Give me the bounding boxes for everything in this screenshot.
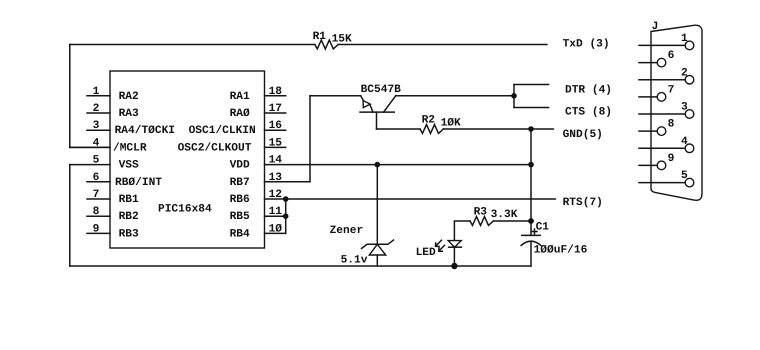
svg-text:RB6: RB6: [230, 194, 250, 206]
svg-text:17: 17: [269, 103, 282, 115]
svg-text:2: 2: [93, 103, 100, 115]
pin 5 wire: [70, 164, 110, 166]
pin 17 wire: [265, 112, 286, 114]
J pin 4 wire: [639, 147, 685, 149]
svg-text:Zener: Zener: [330, 225, 364, 237]
svg-text:2: 2: [681, 67, 688, 79]
J pin 6 circle: [657, 58, 666, 67]
svg-text:PIC16x84: PIC16x84: [158, 204, 212, 216]
svg-text:RA1: RA1: [230, 91, 250, 103]
wire pin13 riser: [309, 96, 311, 182]
wire top TxD line right of R1: [338, 44, 547, 46]
svg-text:3.3K: 3.3K: [491, 209, 518, 221]
wire R2 to GND node: [443, 128, 531, 130]
svg-text:16: 16: [269, 120, 283, 132]
svg-text:R1: R1: [313, 31, 327, 43]
J pin 8 wire: [639, 130, 657, 132]
svg-text:RB5: RB5: [230, 211, 250, 223]
svg-text:4: 4: [681, 136, 688, 148]
svg-text:3: 3: [93, 120, 100, 132]
svg-text:9: 9: [668, 153, 675, 165]
svg-text:RB1: RB1: [119, 194, 139, 206]
J pin 5 wire: [639, 182, 685, 184]
LED D2 triangle: [448, 241, 461, 248]
capacitor C1 top plate: [522, 234, 541, 236]
pin 15 wire: [265, 146, 286, 148]
wire base to R2: [377, 128, 421, 130]
resistor R2: [420, 125, 443, 134]
svg-text:CTS (8): CTS (8): [565, 105, 612, 118]
svg-text:18: 18: [269, 86, 283, 98]
svg-text:/MCLR: /MCLR: [113, 141, 147, 154]
transistor Q1 BC547B emitter diagonal: [361, 96, 373, 112]
J pin 8 circle: [657, 127, 666, 136]
pin 10 wire: [265, 232, 286, 234]
pin 18 wire: [265, 95, 286, 97]
wire CTS stub: [514, 107, 549, 109]
svg-text:VSS: VSS: [119, 160, 139, 172]
J pin 9 circle: [657, 161, 666, 170]
svg-text:6: 6: [93, 172, 100, 184]
LED arrow 1: [436, 240, 442, 246]
svg-text:5.1v: 5.1v: [341, 255, 368, 267]
svg-text:11: 11: [269, 206, 283, 218]
svg-text:OSC2/CLKOUT: OSC2/CLKOUT: [178, 141, 252, 154]
wire R3 to C1 branch: [493, 220, 531, 222]
svg-text:7: 7: [668, 85, 675, 97]
pin 1 wire: [87, 95, 110, 97]
transistor Q1 collector diagonal: [384, 96, 396, 112]
connector J DB9 outline: [651, 25, 702, 200]
svg-text:RA4/TØCKI: RA4/TØCKI: [115, 124, 175, 137]
svg-text:1: 1: [93, 86, 100, 98]
wire bottom rail: [70, 265, 531, 267]
C1 plus sign: [532, 229, 537, 234]
svg-text:1Ø: 1Ø: [269, 223, 283, 235]
junction R2/GND/C1: [528, 126, 534, 132]
wire LED branch top corner to R3: [454, 221, 470, 241]
svg-text:C1: C1: [536, 222, 550, 234]
IC U1 PIC16x84 body: [110, 71, 265, 248]
J pin 1 wire: [639, 44, 685, 46]
svg-text:RB7: RB7: [230, 177, 250, 189]
svg-text:7: 7: [93, 189, 100, 201]
svg-text:14: 14: [269, 155, 283, 167]
svg-text:RB3: RB3: [119, 228, 139, 240]
pin 3 wire: [87, 129, 110, 131]
svg-text:R2: R2: [422, 115, 436, 127]
pin 2 wire: [87, 112, 110, 114]
svg-text:6: 6: [668, 50, 675, 62]
svg-text:RBØ/INT: RBØ/INT: [115, 176, 162, 189]
pin 12 wire RTS line: [286, 198, 556, 200]
J pin 7 circle: [657, 93, 666, 102]
svg-text:5: 5: [681, 170, 688, 182]
svg-text:8: 8: [93, 206, 100, 218]
wire top TxD line left of R1: [70, 44, 315, 46]
J pin 1 circle: [685, 41, 694, 50]
svg-text:BC547B: BC547B: [361, 84, 402, 96]
pin 13 wire: [265, 181, 311, 183]
pin 4 wire: [70, 146, 110, 148]
svg-text:RA3: RA3: [119, 108, 139, 120]
svg-text:8: 8: [668, 119, 675, 131]
zener diode D1 triangle: [369, 244, 385, 255]
pin 6 wire: [87, 181, 110, 183]
pin 16 wire: [265, 129, 286, 131]
svg-text:1ØK: 1ØK: [441, 118, 461, 130]
wire GND stub: [531, 128, 553, 130]
wire C1 branch vertical: [530, 129, 532, 235]
wire transistor base tap vertical: [376, 112, 378, 129]
wire LED bottom: [453, 247, 455, 266]
svg-text:9: 9: [93, 223, 100, 235]
svg-text:RB4: RB4: [230, 228, 250, 240]
wire pins 12-11-10 tie vertical: [285, 199, 287, 233]
resistor R3: [470, 217, 493, 226]
svg-text:5: 5: [93, 155, 100, 167]
wire emitter line: [310, 95, 361, 97]
wire VSS rail vertical: [69, 165, 71, 266]
wire DTR/CTS bracket vertical: [513, 85, 515, 108]
junction VDD/C1 branch: [528, 162, 534, 168]
J pin 7 wire: [639, 96, 657, 98]
svg-text:RAØ: RAØ: [230, 108, 250, 120]
pin 11 wire: [265, 215, 286, 217]
svg-text:1: 1: [681, 33, 688, 45]
pin 9 wire: [87, 232, 110, 234]
svg-text:OSC1/CLKIN: OSC1/CLKIN: [189, 124, 256, 137]
transistor Q1 emitter arrow: [363, 101, 370, 108]
wire zener branch upper: [376, 165, 378, 245]
svg-text:15K: 15K: [332, 34, 352, 46]
svg-text:RA2: RA2: [119, 91, 139, 103]
pin 12 stub: [265, 198, 286, 200]
LED D2 cathode bar: [449, 246, 462, 248]
wire collector to bracket: [396, 95, 514, 97]
svg-text:TxD (3): TxD (3): [563, 38, 610, 51]
wire DTR stub: [514, 84, 549, 86]
wire left rail /MCLR to R1: [70, 146, 110, 148]
svg-text:VDD: VDD: [230, 160, 250, 172]
junction LED/bottom rail: [451, 263, 457, 269]
svg-text:1ØØuF/16: 1ØØuF/16: [534, 244, 588, 257]
junction R3/C1: [528, 218, 534, 224]
svg-text:12: 12: [269, 189, 283, 201]
LED arrow 2: [439, 245, 445, 251]
J pin 5 circle: [685, 178, 694, 187]
capacitor C1 curved plate: [521, 241, 541, 245]
wire left rail vertical top: [69, 45, 71, 148]
svg-text:J: J: [652, 21, 659, 33]
wire C1 bottom vertical: [530, 241, 532, 266]
resistor R1: [315, 40, 338, 49]
J pin 2 circle: [685, 75, 694, 84]
svg-text:15: 15: [269, 137, 283, 149]
zener diode D1 bar: [362, 240, 394, 249]
svg-text:RB2: RB2: [119, 211, 139, 223]
wire zener branch lower: [376, 255, 378, 266]
pin 14 wire VDD line to C1 branch: [265, 164, 532, 166]
svg-text:3: 3: [681, 102, 688, 114]
junction collector/bracket: [511, 93, 517, 99]
svg-text:DTR (4): DTR (4): [565, 83, 612, 96]
J pin 2 wire: [639, 79, 685, 81]
J pin 3 circle: [685, 110, 694, 119]
svg-text:RTS(7): RTS(7): [563, 196, 603, 209]
pin 8 wire: [87, 215, 110, 217]
pin 7 wire: [87, 198, 110, 200]
junction VDD/zener tap: [375, 162, 381, 168]
junction pin12/RTS: [283, 196, 289, 202]
svg-text:13: 13: [269, 172, 283, 184]
J pin 9 wire: [639, 164, 657, 166]
svg-text:LED: LED: [416, 247, 436, 259]
junction pin11: [283, 213, 289, 219]
transistor Q1 base bar: [360, 111, 394, 113]
J pin 6 wire: [639, 62, 657, 64]
svg-text:GND(5): GND(5): [563, 128, 603, 141]
J pin 3 wire: [639, 113, 685, 115]
J pin 4 circle: [685, 144, 694, 153]
svg-text:R3: R3: [474, 207, 488, 219]
